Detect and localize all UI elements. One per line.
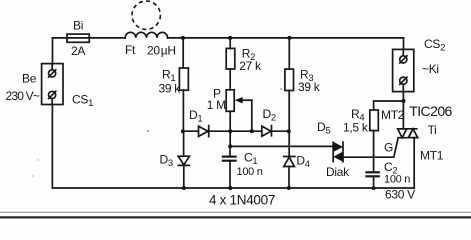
svg-text:230 V~: 230 V~ [6,89,40,103]
svg-text:Ti: Ti [428,123,437,137]
svg-text:MT2: MT2 [381,108,405,122]
svg-text:27 k: 27 k [239,59,262,73]
svg-text:Ft: Ft [125,43,136,57]
svg-text:39 k: 39 k [159,82,182,96]
svg-text:100 n: 100 n [384,174,410,186]
svg-text:TIC206: TIC206 [409,103,452,119]
svg-text:~Ki: ~Ki [422,62,439,76]
svg-text:MT1: MT1 [420,149,444,163]
svg-text:Bi: Bi [73,18,83,32]
svg-text:630 V: 630 V [385,187,415,201]
svg-text:Diak: Diak [326,165,350,179]
svg-text:39 k: 39 k [298,80,321,94]
svg-text:2A: 2A [71,44,85,58]
svg-text:1,5 k: 1,5 k [343,121,369,135]
svg-text:G: G [384,141,393,155]
svg-text:20µH: 20µH [147,44,176,58]
svg-text:Be: Be [22,71,37,85]
svg-text:1 M: 1 M [207,98,226,112]
svg-text:100 n: 100 n [237,166,263,178]
svg-text:4 x 1N4007: 4 x 1N4007 [209,192,275,207]
